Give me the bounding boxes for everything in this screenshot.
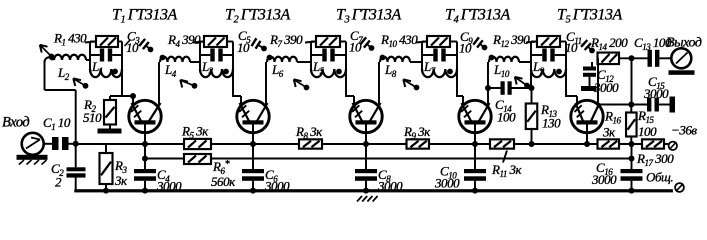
- svg-text:3к: 3к: [602, 125, 616, 140]
- ground bus wire: [74, 189, 673, 192]
- svg-text:510: 510: [83, 110, 102, 125]
- transistor label T3: [336, 7, 402, 26]
- node R15 top: [628, 102, 634, 108]
- svg-text:3000: 3000: [591, 172, 617, 187]
- svg-text:3000: 3000: [264, 179, 290, 194]
- svg-text:100: 100: [638, 124, 657, 139]
- inductor L7: [422, 59, 457, 77]
- capacitor C11 10: [565, 29, 595, 55]
- svg-text:C110: C110: [43, 115, 71, 132]
- node base T3 on bias line: [363, 141, 369, 147]
- resistor R11 3к: [490, 139, 522, 179]
- resistor R13 130: [526, 88, 561, 147]
- wire T3 collector riser: [378, 62, 380, 105]
- inductor L8: [380, 55, 422, 79]
- wire tank2 to T2 emitter: [232, 69, 241, 105]
- wire T4 collector riser: [487, 62, 489, 105]
- svg-text:−36в: −36в: [671, 123, 697, 138]
- capacitor C3 10: [125, 29, 154, 56]
- svg-text:R12390: R12390: [492, 32, 530, 49]
- resistor R16 3к: [598, 109, 622, 149]
- inductor L4: [160, 55, 200, 79]
- node base T5 on bias line: [584, 141, 590, 147]
- tuning arrow stage 3: [294, 79, 310, 90]
- tuning arrow stage 5: [515, 77, 530, 89]
- wire L2 to input node: [45, 57, 76, 144]
- svg-text:3000: 3000: [156, 179, 182, 194]
- resistor R7 390: [269, 32, 340, 49]
- inductor L2: [49, 55, 90, 82]
- terminal Общ: [646, 170, 684, 192]
- tuning arrow stage 4: [403, 79, 419, 90]
- svg-text:3к: 3к: [114, 173, 128, 188]
- transistor T1: [129, 100, 161, 132]
- wire input to C1: [44, 143, 52, 145]
- resistor R6* 560к: [184, 154, 236, 189]
- wire T1 collector riser: [158, 62, 160, 105]
- capacitor C15 3000: [643, 74, 675, 113]
- tuning arrow input: [40, 45, 55, 60]
- ground hatch below bus at T3: [357, 196, 378, 202]
- capacitor C9 10: [459, 29, 487, 56]
- wire T2 base to bias line: [252, 125, 254, 145]
- svg-text:R17300: R17300: [636, 151, 674, 168]
- inductor L5: [311, 59, 346, 77]
- inductor L3: [200, 59, 233, 77]
- wire tank3 frame: [311, 42, 346, 71]
- capacitor C7 10: [349, 28, 374, 55]
- inductor L9: [531, 59, 566, 77]
- wire tank4 frame: [422, 42, 457, 71]
- capacitor C4 3000: [134, 144, 182, 194]
- resistor R15 100: [626, 105, 657, 145]
- capacitor C6 3000: [242, 144, 290, 194]
- svg-text:10: 10: [565, 40, 578, 55]
- capacitor C2 2: [51, 144, 86, 191]
- transistor T3: [350, 100, 382, 132]
- node T1 emitter: [130, 93, 136, 99]
- node R16/R17 junction: [629, 141, 635, 147]
- capacitor C1 10: [43, 115, 71, 150]
- svg-text:3000: 3000: [593, 80, 619, 95]
- wire tank5 left down to C14 node: [530, 69, 532, 88]
- transistor label T2: [225, 7, 291, 26]
- transistor T5: [571, 100, 603, 132]
- wire tank1 frame: [90, 42, 122, 71]
- svg-text:10: 10: [349, 40, 362, 55]
- wire T2 collector riser: [265, 62, 267, 105]
- inductor L10: [489, 55, 531, 79]
- resistor R1 430: [53, 31, 118, 48]
- wire collector node to C15: [598, 104, 647, 106]
- transistor T2: [237, 100, 269, 132]
- resistor R8 3к: [295, 124, 323, 149]
- wire tank5 to T5 emitter: [565, 69, 577, 105]
- wire tank4 to T4 emitter: [456, 69, 463, 105]
- capacitor C10 3000: [434, 144, 486, 194]
- input terminal Вход: [2, 115, 44, 155]
- capacitor C14 100: [488, 81, 532, 124]
- svg-text:3000: 3000: [434, 176, 460, 191]
- node base T4 on bias line: [472, 141, 478, 147]
- svg-text:R14200: R14200: [590, 35, 628, 52]
- node R14/C13 junction: [629, 55, 635, 61]
- node line B at T1: [142, 156, 148, 162]
- resistor R4 390: [167, 32, 227, 49]
- tank1 capacitor: [90, 49, 122, 62]
- svg-text:R4390: R4390: [167, 32, 201, 49]
- capacitor C8 3000: [355, 144, 403, 194]
- tank4 capacitor: [422, 49, 457, 62]
- tank2 capacitor: [200, 49, 233, 62]
- svg-text:560к: 560к: [211, 174, 236, 189]
- tank3 capacitor: [311, 49, 346, 62]
- resistor R9 3к: [403, 124, 431, 149]
- svg-text:R10430: R10430: [380, 32, 418, 49]
- tank5 capacitor: [531, 49, 566, 62]
- tuning arrow stage 1: [73, 78, 88, 88]
- wire T5 collector riser: [597, 58, 599, 104]
- svg-text:10: 10: [237, 40, 250, 55]
- inductor L1: [90, 59, 122, 77]
- node base T2 on bias line: [250, 141, 256, 147]
- wire tank2 frame: [200, 42, 233, 71]
- transistor T4: [459, 100, 491, 132]
- wire T1 base to bias line: [144, 125, 146, 145]
- resistor R10 430: [380, 32, 450, 49]
- svg-text:Вход: Вход: [2, 115, 29, 131]
- resistor R2 510: [83, 96, 133, 129]
- svg-text:10: 10: [459, 41, 472, 56]
- wire T3 base to bias line: [365, 125, 367, 145]
- wire T5 base to bias line: [586, 125, 588, 145]
- capacitor C5 10: [237, 28, 267, 55]
- svg-text:Общ.: Общ.: [646, 170, 673, 185]
- tuning arrow stage 2: [180, 80, 197, 89]
- wire junction down from R14 node: [631, 58, 633, 104]
- feedback line node (R6 line): [145, 158, 632, 160]
- resistor R14 200: [590, 35, 628, 64]
- base bias line (node chain): [76, 143, 669, 145]
- svg-text:R7390: R7390: [269, 32, 303, 49]
- node line B right end: [629, 156, 635, 162]
- node base T1 on bias line: [142, 141, 148, 147]
- resistor R17 300: [636, 139, 674, 168]
- capacitor C13 100: [634, 35, 672, 67]
- wire tank3 to T3 emitter: [345, 69, 354, 105]
- svg-text:100: 100: [497, 110, 516, 125]
- output terminal Выход: [666, 36, 702, 75]
- node A junction: [73, 141, 79, 147]
- wire R14 to C13: [619, 57, 648, 59]
- resistor R3 3к: [100, 144, 129, 194]
- resistor R12 390: [492, 32, 560, 49]
- transistor label T4: [445, 7, 511, 26]
- capacitor C16 3000: [591, 144, 643, 194]
- svg-text:R1430: R1430: [53, 31, 87, 48]
- transistor label T1: [112, 7, 178, 26]
- wire C1 to node A: [69, 143, 78, 145]
- capacitor C12 3000: [581, 62, 619, 95]
- wire T4 base to bias line: [474, 125, 476, 145]
- wire tank1 to T1 emitter: [121, 69, 133, 105]
- node C14/R13: [529, 85, 535, 91]
- svg-text:2: 2: [55, 175, 62, 190]
- terminal -3,6в: [669, 123, 698, 151]
- transistor label T5: [557, 7, 623, 26]
- ground chassis under R2: [98, 129, 122, 134]
- wire tank5 frame: [531, 42, 566, 71]
- ground chassis under input: [17, 155, 48, 165]
- svg-text:130: 130: [542, 116, 561, 131]
- node on T4 collector riser: [485, 85, 491, 91]
- svg-text:3000: 3000: [377, 179, 403, 194]
- inductor L6: [267, 55, 311, 79]
- resistor R5 3к: [181, 124, 211, 150]
